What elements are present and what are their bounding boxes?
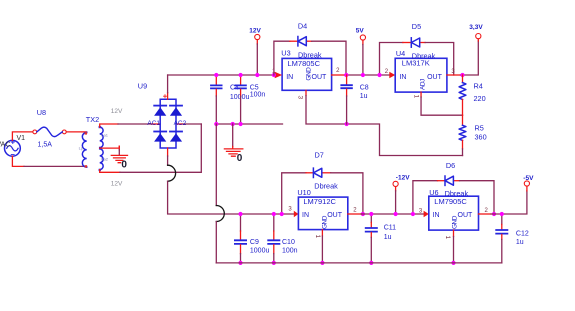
- capacitor C4: [211, 75, 222, 96]
- bridge bottom pin: [167, 148, 169, 156]
- capacitor C10: [268, 214, 279, 263]
- node dot C11 bottom: [369, 261, 373, 265]
- voltage regulator U4 LM317K: [395, 58, 447, 92]
- svg-text:5V: 5V: [356, 27, 365, 34]
- node dot C4 bottom: [214, 122, 218, 126]
- svg-text:U3: U3: [281, 49, 290, 58]
- svg-text:1u: 1u: [516, 239, 524, 246]
- svg-text:0: 0: [121, 159, 127, 170]
- svg-text:U4: U4: [396, 49, 405, 58]
- U3 OUT wire: [332, 74, 391, 76]
- svg-text:LM7805C: LM7805C: [288, 59, 321, 68]
- node dot 5V: [361, 73, 365, 77]
- wire TX2 secondary top tap to bridge AC1: [100, 124, 161, 127]
- svg-text:OUT: OUT: [427, 74, 443, 81]
- diode D6: [445, 176, 453, 185]
- svg-text:3,3V: 3,3V: [469, 24, 483, 31]
- svg-text:GND: GND: [452, 215, 459, 229]
- svg-text:C12: C12: [516, 231, 529, 238]
- svg-text:ADJ: ADJ: [419, 79, 426, 90]
- svg-text:12V: 12V: [111, 180, 123, 187]
- node dot -12V: [394, 212, 398, 216]
- svg-text:C8: C8: [360, 85, 369, 92]
- svg-text:D6: D6: [446, 161, 455, 170]
- resistor R4: [459, 75, 466, 115]
- capacitor C5: [235, 75, 246, 124]
- U4 ADJ pin wire: [421, 92, 462, 115]
- svg-text:AC1: AC1: [147, 120, 160, 127]
- svg-text:1: 1: [314, 235, 321, 239]
- bridge diode top-right: [170, 106, 182, 116]
- wire bridge plus to top rail: [167, 75, 169, 93]
- node dot C5 top: [239, 73, 243, 77]
- resistor R5: [459, 115, 466, 155]
- U6 OUT wire: [479, 191, 527, 214]
- capacitor C12: [496, 214, 507, 263]
- svg-text:U6: U6: [429, 188, 438, 197]
- transformer TX2 secondary winding La1: [99, 126, 104, 148]
- ground rail under C4 C5: [216, 123, 282, 125]
- svg-text:D7: D7: [315, 151, 324, 160]
- bridge diode bottom-right: [170, 132, 182, 142]
- wire V1 top to fuse: [12, 132, 33, 141]
- wire bridge minus down: [167, 156, 169, 165]
- ground 0 at TX2 center tap: [111, 155, 127, 162]
- wire center tap stem: [118, 150, 120, 155]
- fuse U8: [33, 127, 66, 137]
- svg-text:La1: La1: [101, 132, 108, 137]
- svg-text:V1: V1: [17, 135, 26, 142]
- svg-text:D5: D5: [412, 22, 421, 31]
- svg-text:12V: 12V: [249, 27, 261, 34]
- wire fuse to TX2: [66, 131, 86, 134]
- wire hop over AC wire: [168, 165, 176, 181]
- svg-text:LM7912C: LM7912C: [303, 197, 336, 206]
- svg-text:OUT: OUT: [312, 74, 328, 81]
- wire hop ground column over negative rail: [216, 206, 224, 222]
- node dot C10 bottom: [272, 261, 276, 265]
- node dot D7 left: [280, 212, 284, 216]
- svg-text:C11: C11: [384, 224, 396, 231]
- U10 IN arrow: [294, 211, 299, 218]
- svg-text:R4: R4: [474, 81, 483, 90]
- diode D7: [313, 168, 321, 177]
- svg-text:R5: R5: [475, 124, 484, 133]
- svg-text:1,5A: 1,5A: [38, 142, 53, 149]
- node dot C12 top: [500, 212, 504, 216]
- bridge diode bottom-left: [154, 132, 166, 142]
- wire V1 bottom: [12, 156, 24, 166]
- svg-text:C5: C5: [250, 84, 259, 91]
- svg-text:IN: IN: [433, 212, 440, 219]
- capacitor C11: [366, 214, 377, 263]
- svg-text:360: 360: [475, 133, 487, 142]
- 3,3V terminal: [476, 34, 481, 42]
- bridge diode top-left: [154, 106, 166, 116]
- wire bridge minus to negative rail corner: [168, 181, 241, 214]
- svg-text:GND: GND: [306, 67, 313, 81]
- wire TX2 secondary bottom tap: [100, 124, 202, 172]
- diode D7 bypass loop: [282, 173, 363, 214]
- node dot C10 top: [272, 212, 276, 216]
- capacitor C9: [235, 214, 246, 263]
- diode D4 bypass loop: [274, 41, 346, 75]
- diode D5: [411, 38, 419, 47]
- svg-text:C9: C9: [250, 239, 259, 246]
- 12V terminal: [255, 34, 260, 75]
- svg-text:1: 1: [444, 236, 451, 240]
- svg-text:1000u: 1000u: [230, 94, 250, 101]
- node dot U10 gnd: [320, 261, 324, 265]
- svg-text:GND: GND: [322, 215, 329, 229]
- svg-text:100n: 100n: [282, 248, 298, 255]
- node dot R4 top: [460, 73, 464, 77]
- wire C4 bottom ground column: [215, 96, 217, 124]
- svg-text:TX2: TX2: [86, 115, 99, 124]
- -12V terminal: [393, 181, 398, 214]
- transformer TX2 primary winding Lp: [82, 132, 87, 167]
- ground jog to R5: [347, 124, 463, 156]
- capacitor C8: [341, 75, 352, 124]
- svg-text:Dbreak: Dbreak: [412, 51, 436, 60]
- ground column down to negative section: [215, 124, 217, 206]
- node dot U6 gnd: [451, 261, 455, 265]
- node dot C9 top: [238, 212, 242, 216]
- svg-text:0: 0: [237, 153, 243, 164]
- svg-text:IN: IN: [286, 74, 293, 81]
- node dot C5 bottom: [239, 122, 243, 126]
- node dot C9 bottom: [238, 261, 242, 265]
- svg-text:220: 220: [474, 94, 486, 103]
- svg-text:Dbreak: Dbreak: [314, 182, 338, 191]
- svg-text:VAC: VAC: [0, 142, 10, 149]
- node dot C4 top: [214, 73, 218, 77]
- U3 GND pin wire: [306, 90, 347, 124]
- bridge top pin: [164, 93, 168, 100]
- ground column to bottom rail: [215, 222, 217, 263]
- node dot 12V rail: [255, 73, 259, 77]
- svg-text:-5V: -5V: [523, 175, 534, 182]
- svg-text:IN: IN: [302, 212, 309, 219]
- svg-text:1u: 1u: [384, 234, 392, 241]
- svg-text:Dbreak: Dbreak: [445, 189, 469, 198]
- 5V terminal: [360, 35, 365, 75]
- svg-text:IN: IN: [399, 74, 406, 81]
- ground stem wire: [232, 124, 234, 147]
- svg-text:U10: U10: [297, 188, 310, 197]
- svg-text:D4: D4: [298, 22, 307, 31]
- U4 OUT wire: [447, 41, 478, 75]
- svg-text:3: 3: [296, 96, 303, 100]
- node dot D6 left: [411, 212, 415, 216]
- svg-text:1: 1: [412, 95, 419, 99]
- negative input rail to U10: [241, 213, 296, 215]
- svg-text:AC2: AC2: [174, 120, 187, 127]
- svg-text:1000u: 1000u: [250, 248, 270, 255]
- U10 OUT wire: [348, 213, 425, 215]
- voltage regulator U6 LM7905C: [429, 196, 479, 230]
- diode D6 bypass loop: [413, 181, 494, 214]
- U10 GND pin wire: [321, 230, 323, 263]
- node dot D6 right: [492, 212, 496, 216]
- node dot D5 left: [377, 73, 381, 77]
- U6 IN arrow: [424, 211, 429, 218]
- transformer TX2 secondary winding La2: [99, 149, 104, 171]
- bridge rectifier U9 frame: [160, 99, 176, 148]
- ground 0 under C4 C5: [224, 147, 242, 157]
- U3 pin 1 arrow: [275, 72, 282, 79]
- voltage regulator U10 LM7912C: [298, 197, 347, 230]
- node dot C11 top: [369, 212, 373, 216]
- node dot D7 right: [361, 212, 365, 216]
- top positive rail: [168, 74, 276, 76]
- svg-text:Lp: Lp: [79, 146, 84, 151]
- U6 GND pin wire: [453, 230, 455, 263]
- svg-text:OUT: OUT: [327, 212, 343, 219]
- svg-text:12V: 12V: [111, 108, 123, 115]
- -5V terminal: [524, 181, 529, 191]
- svg-text:-12V: -12V: [396, 174, 410, 181]
- svg-text:U8: U8: [37, 108, 46, 117]
- bottom ground rail: [216, 262, 502, 264]
- wire V1 bottom to TX2 primary: [24, 165, 87, 167]
- svg-text:1u: 1u: [360, 93, 368, 100]
- svg-text:OUT: OUT: [458, 212, 474, 219]
- svg-text:La2: La2: [101, 157, 108, 162]
- voltage regulator U3 LM7805C: [282, 58, 332, 90]
- wire TX2 center tap to ground: [100, 146, 120, 148]
- diode D5 bypass loop: [380, 43, 454, 76]
- node dot D4 left: [272, 73, 276, 77]
- U3 to U4 arrow: [389, 72, 395, 79]
- svg-text:C10: C10: [282, 239, 295, 246]
- node dot U3 out / D4 right: [344, 73, 348, 77]
- svg-text:100n: 100n: [250, 92, 266, 99]
- node dot ground stem: [231, 122, 235, 126]
- AC source V1: [4, 140, 20, 156]
- node dot C8 bottom: [345, 122, 349, 126]
- svg-text:Dbreak: Dbreak: [298, 50, 322, 59]
- diode D4: [298, 37, 306, 46]
- svg-text:U9: U9: [138, 82, 147, 91]
